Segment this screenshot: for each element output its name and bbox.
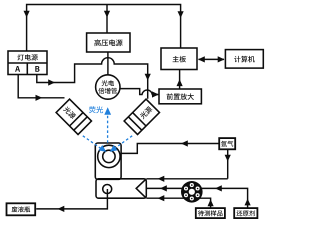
separator cone <box>136 179 146 198</box>
fluorescence arrowhead <box>104 107 111 115</box>
box HV power supply 高压电源 <box>87 33 130 52</box>
box reductant 还原剂 <box>234 208 257 218</box>
label 氩气 <box>221 141 233 147</box>
left ray arrowhead <box>99 145 107 152</box>
arrowhead B wire <box>48 79 55 85</box>
wire drop to HV supply <box>106 5 108 33</box>
fluorescence dashed ray to PMT <box>107 116 109 143</box>
wire lamp supply output A to left lamp <box>18 75 64 98</box>
gas-liquid separator body <box>96 179 146 198</box>
label 前置放大 <box>167 93 194 100</box>
arrowhead into waste bottle <box>58 206 65 212</box>
arrowhead to mainboard from computer <box>198 56 205 62</box>
tube top (argon carrier) <box>146 178 227 180</box>
label A <box>15 66 20 72</box>
box computer 计算机 <box>225 50 263 69</box>
cell window inner circle <box>103 150 115 162</box>
left lamp housing 光源 (rotated) <box>56 99 91 134</box>
arrowhead sample riser <box>208 199 214 206</box>
arrowhead A wire <box>36 95 43 101</box>
box sample 待测样品 <box>196 208 225 218</box>
box argon 氩气 <box>219 138 235 149</box>
label 光源 left <box>63 107 76 120</box>
wire HV supply to PMT <box>107 52 109 75</box>
arrowhead signal into preamp <box>152 91 159 97</box>
box waste bottle 废液瓶 <box>7 203 36 215</box>
arrowhead middle tube <box>160 185 167 191</box>
wire argon down to carrier tube <box>227 150 229 179</box>
box preamp 前置放大 <box>159 89 201 104</box>
arrowhead reductant riser <box>245 199 251 206</box>
arrowhead to computer <box>218 56 225 62</box>
wire PMT signal to preamp (hops over lamp wire) <box>120 89 158 95</box>
wire mainboard to computer (bidirectional) <box>199 58 225 60</box>
box lamp power supply 灯电源 <box>8 51 47 75</box>
left excitation ray <box>83 136 101 149</box>
wire preamp to mainboard <box>179 70 181 89</box>
wire drain to waste bottle <box>36 189 107 209</box>
drain port circle <box>103 185 112 194</box>
label 光电 (PMT line 1) <box>102 80 114 86</box>
label 灯电源 <box>18 54 38 60</box>
arrowhead top tube <box>158 176 165 182</box>
arrowhead reductant line <box>215 185 222 191</box>
arrowhead bottom tube <box>158 195 165 201</box>
tube middle (reductant) <box>146 188 247 208</box>
peristaltic pump <box>181 181 203 203</box>
PMT circle 光电倍增管 <box>96 75 120 99</box>
wire lamp supply output B to right lamp (hops over HV wire) <box>37 58 148 99</box>
label 主板 <box>173 56 186 63</box>
label 荧光 (blue) <box>89 106 103 113</box>
atomizer cell body <box>95 143 121 179</box>
label 还原剂 <box>237 210 255 216</box>
label 废液瓶 <box>12 206 31 212</box>
label 倍增管 (PMT line 2) <box>98 88 117 94</box>
arrowhead into mainboard <box>178 11 184 18</box>
wire top power rail with drops to lamp supply, HV supply and mainboard <box>27 5 181 52</box>
label 光源 right <box>140 106 153 119</box>
right ray arrowhead <box>110 145 118 152</box>
label 高压电源 <box>94 39 122 46</box>
tube bottom (sample) <box>146 198 210 208</box>
arrowhead into lamp supply <box>24 11 30 18</box>
label 计算机 <box>234 56 255 63</box>
label B <box>35 66 39 72</box>
right lamp housing 光源 (rotated) <box>124 99 159 134</box>
right excitation ray <box>115 136 133 149</box>
wire argon to cell inlet <box>121 144 219 154</box>
box mainboard 主板 <box>161 48 197 70</box>
arrowhead into HV supply <box>104 11 110 18</box>
arrowhead preamp to mainboard <box>177 79 183 86</box>
arrowhead B drop to right lamp <box>145 74 151 81</box>
arrowhead argon drop <box>225 155 231 162</box>
arrowhead argon into cell <box>181 140 188 146</box>
label 待测样品 <box>198 210 223 216</box>
cell window outer circle <box>98 145 120 167</box>
